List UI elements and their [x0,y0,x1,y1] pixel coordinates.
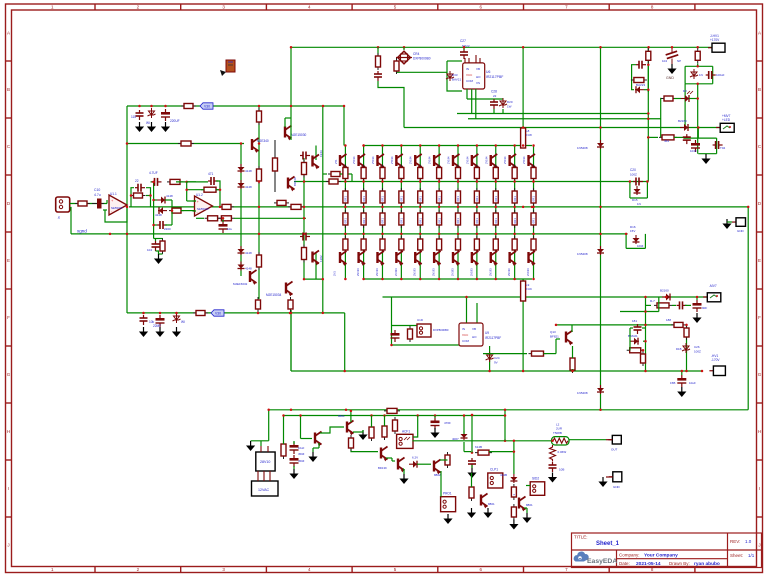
wire [290,310,292,371]
wire [686,325,688,371]
transistor Q8 [315,432,322,447]
junction [290,105,293,108]
junction [522,46,525,49]
svg-text:90F: 90F [702,306,707,310]
svg-text:464: 464 [664,139,669,143]
junction [513,206,516,209]
svg-text:100Z: 100Z [630,173,637,177]
junction [599,46,602,49]
transistor QD1 [340,154,347,169]
wire [447,61,462,91]
capacitor C36 [549,462,557,472]
junction [303,233,306,236]
wire [466,89,468,99]
svg-text:0R1: 0R1 [381,196,385,202]
resistor R46 [257,108,262,125]
transistor QB6 [453,251,460,266]
junction [400,233,403,236]
diode D5 [238,164,245,173]
junction [362,206,365,209]
resistor RM6a [456,188,461,206]
junction [419,278,422,281]
svg-text:ACF1: ACF1 [402,430,410,434]
resistor RT1 [361,165,366,182]
resistor R20 [646,48,651,63]
wire [377,47,379,56]
svg-text:B: B [758,87,761,92]
svg-text:U9: U9 [485,331,489,335]
resistor R41 [178,141,194,146]
svg-text:I: I [759,486,760,491]
svg-text:MJE15034: MJE15034 [266,293,281,297]
junction [495,206,498,209]
capacitor C25 [634,324,642,334]
junction [290,312,293,315]
svg-text:8802: 8802 [434,473,441,477]
svg-text:Sheet:: Sheet: [730,553,743,558]
wire [187,189,204,191]
junction [463,414,466,417]
svg-text:1943: 1943 [319,150,323,157]
wire gate line 2 [468,118,661,120]
wire [660,98,662,138]
svg-text:Sheet_1: Sheet_1 [596,541,620,547]
resistor RM10a [531,188,536,206]
resistor R4 [167,179,183,184]
svg-text:1N5408: 1N5408 [577,146,588,150]
junction [599,126,602,129]
resistor RM8a [493,188,498,206]
polarized capacitor C8 [693,300,702,312]
ground [172,327,181,337]
wire [504,416,506,441]
junction [532,278,535,281]
svg-text:Company:: Company: [619,553,640,558]
transistor Q7 [286,282,293,297]
junction [400,206,403,209]
junction [303,206,306,209]
resistor R11 [257,166,262,184]
junction [665,296,668,299]
wire array bottom rail [364,278,533,280]
junction [696,46,699,49]
wire [391,297,393,345]
junction [504,440,507,443]
junction [697,126,700,129]
svg-text:0R1: 0R1 [437,196,441,202]
junction [171,209,174,212]
wire [216,189,220,191]
junction [322,105,325,108]
resistor RB2 [380,236,385,253]
svg-text:E: E [7,258,10,263]
svg-text:2N193: 2N193 [394,268,398,276]
resistor RD1 [343,165,348,182]
resistor RT5 [437,165,442,182]
resistor R48 [288,204,304,209]
svg-text:0R1: 0R1 [400,196,404,202]
junction [625,233,628,236]
wire [154,238,163,240]
resistor RT10 [531,165,536,182]
ground [548,473,557,483]
wire [187,200,196,202]
transistor QT2 [377,154,384,169]
junction [419,144,422,147]
resistor RB5 [437,236,442,253]
zener diode C24 [486,352,494,362]
resistor RM5a [437,188,442,206]
zener diode D1 [148,108,156,118]
polarized capacitor C5 [691,140,700,152]
junction [522,126,525,129]
diode D13 1N5408 [597,140,604,149]
ground [667,64,676,74]
wire [290,47,292,106]
resistor RD2 [343,188,348,206]
junction [126,142,129,145]
svg-text:0R1: 0R1 [456,218,460,224]
svg-text:F: F [758,315,761,320]
wire [526,485,530,487]
svg-text:0R1: 0R1 [381,218,385,224]
wire array column 9 [514,146,516,280]
resistor R37 [475,450,492,455]
junction [381,278,384,281]
junction [322,312,325,315]
junction [457,233,460,236]
svg-text:IR2117PBF: IR2117PBF [486,75,503,79]
svg-text:A: A [758,31,761,36]
wire array top rail [364,145,533,147]
svg-text:104F: 104F [690,149,697,153]
junction [109,233,112,236]
wire [697,128,699,139]
wire lower box [127,312,345,314]
capacitor C19 [208,177,218,185]
capacitor C3 [683,134,691,144]
resistor R22 [695,48,700,63]
wire [222,218,224,222]
svg-text:D33: D33 [452,73,458,77]
wire [350,411,352,422]
junction [671,46,674,49]
svg-text:MJE15032: MJE15032 [233,282,248,286]
svg-text:12VAC: 12VAC [258,488,270,492]
resistor RB4 [418,236,423,253]
wire bypass box top [127,105,344,107]
junction [149,194,152,197]
resistor R24 [659,135,677,140]
wire [463,416,465,435]
wire [131,188,134,207]
junction [504,409,507,412]
resistor R42 [511,504,516,520]
wire bottom rail 2 [284,415,506,417]
wire [630,327,633,329]
junction [696,83,699,86]
wire [696,297,698,300]
resistor RM3b [399,210,404,228]
svg-text:B2160: B2160 [660,289,669,293]
transistor QB10 [529,251,536,266]
resistor RM1a [361,188,366,206]
resistor RM7b [474,210,479,228]
transistor QT5 [434,154,441,169]
junction [513,278,516,281]
svg-text:C10: C10 [94,188,100,192]
wire [417,463,431,465]
wire [304,278,323,280]
wire right loop vertical [747,207,749,410]
wire [171,200,173,211]
svg-text:10uF: 10uF [689,381,696,385]
junction [747,206,750,209]
wire [340,173,352,175]
wire [378,81,404,128]
junction [381,233,384,236]
junction [531,206,534,209]
wire array column 10 [533,146,535,280]
port MV7 LED [716,123,734,132]
transistor QB3 [396,251,403,266]
svg-text:-MV7: -MV7 [709,284,717,288]
zener diode D33 [446,71,454,81]
wire [689,98,698,100]
wire [524,507,527,509]
ground [701,154,710,164]
resistor R35 [382,423,387,440]
polarized capacitor C9 [219,221,228,233]
svg-text:CR4: CR4 [413,52,420,56]
svg-text:U1.1: U1.1 [110,192,117,196]
junction [646,180,649,183]
zener diode D2 [173,313,181,323]
wire [392,325,418,327]
svg-text:0R1: 0R1 [475,218,479,224]
wire [386,457,392,459]
wire [716,138,718,154]
svg-text:10u: 10u [227,227,232,231]
svg-text:2N1: 2N1 [333,271,337,276]
svg-text:181: 181 [632,319,637,323]
wire [698,153,716,155]
junction [343,370,346,373]
wire [234,217,306,219]
junction [476,278,479,281]
junction [532,233,535,236]
svg-text:GND: GND [666,76,674,80]
resistor RT6 [456,165,461,182]
wire [313,447,319,449]
junction [599,206,602,209]
junction [685,370,688,373]
svg-text:D20: D20 [507,100,513,104]
wire [193,210,197,212]
diode D17 B2160 [662,294,671,301]
resistor R43 [384,408,400,413]
svg-text:U6: U6 [486,70,490,74]
wire [620,311,659,313]
wire [322,106,324,313]
wire [555,339,557,354]
capacitor C23 [374,71,382,81]
svg-text:GND: GND [737,229,745,233]
resistor R16 [256,297,261,312]
junction [476,206,479,209]
transistor QB5 [434,251,441,266]
wire [193,200,197,202]
junction [495,144,498,147]
wire neg gate line [556,324,673,326]
diode D8 [238,262,245,271]
svg-text:DXP8000B0: DXP8000B0 [413,57,431,61]
capacitor C17 [157,221,167,229]
capacitor C27 [460,49,468,59]
junction [303,180,306,183]
wire [159,253,163,255]
svg-text:G: G [758,372,762,377]
junction [185,188,188,191]
wire [284,118,286,127]
wire output bus [129,206,748,208]
inductor L2 [552,437,570,445]
wire [290,310,292,371]
resistor R26 [671,322,686,327]
junction [343,105,346,108]
wire [644,234,646,249]
ground [722,219,731,229]
wire [268,410,270,441]
resistor RB8 [493,236,498,253]
polarized capacitor C30 [677,375,686,387]
wire [156,251,159,254]
svg-text:NE5532P: NE5532P [111,206,123,210]
svg-text:15V: 15V [630,229,635,233]
ground [135,122,144,132]
svg-text:RJ: RJ [683,89,687,93]
junction [532,180,535,183]
wire [522,279,524,371]
junction [152,181,155,184]
zener diode D21 [409,461,418,468]
junction [403,46,406,49]
junction [290,46,293,49]
junction [465,296,468,299]
svg-text:H: H [7,429,10,434]
svg-text:2N193: 2N193 [469,268,473,276]
svg-text:NE5532P: NE5532P [197,207,209,211]
svg-text:0R1: 0R1 [344,218,348,224]
resistor R21 [631,78,647,83]
junction [344,278,347,281]
resistor R25 [654,303,672,308]
port OUT [608,435,621,444]
junction [513,180,516,183]
junction [362,233,365,236]
svg-text:2N193: 2N193 [432,268,436,276]
wire [646,304,652,306]
resistor R49 [302,160,307,178]
capacitor C11 [136,110,144,120]
resistor RM4b [418,210,423,228]
wire [392,344,460,346]
optocoupler PRO1 [441,497,456,512]
test probe icon [220,60,235,76]
junction [644,310,647,313]
junction [377,46,380,49]
junction [400,180,403,183]
junction [362,180,365,183]
resistor R38 [469,484,474,501]
junction [303,278,306,281]
svg-text:WI: WI [146,121,150,125]
svg-text:0R1: 0R1 [400,218,404,224]
resistor RM4a [418,188,423,206]
optocoupler ACF1 [397,434,413,448]
svg-text:BD139: BD139 [293,177,297,186]
wire [371,416,373,428]
junction [175,312,178,315]
junction [532,144,535,147]
port -HV1 [709,366,725,376]
LED D11 [681,95,690,102]
svg-text:2N193: 2N193 [375,268,379,276]
junction [381,180,384,183]
svg-text:2Y194: 2Y194 [409,156,413,164]
junction [495,278,498,281]
wire [674,136,683,138]
transistor QT8 [491,154,498,169]
diode D9 [635,86,644,93]
resistor R9 [205,216,221,221]
polarized capacitor C10 [92,199,104,209]
ground [161,122,170,132]
zener diode D20 [499,98,507,108]
transistor QB9 [510,251,517,266]
svg-text:HO: HO [476,75,481,79]
capacitor C20 [633,178,643,186]
transistor Q10 [381,447,388,462]
svg-text:1N5408: 1N5408 [577,391,588,395]
transistor QT3 [396,154,403,169]
wire [293,441,295,444]
wire [464,451,471,453]
wire [646,182,648,199]
resistor R27 [684,325,689,340]
polarized capacitor C4 [666,51,679,58]
wire [320,427,344,433]
junction [282,414,285,417]
transistor QB8 [491,251,498,266]
svg-text:1N5408: 1N5408 [577,252,588,256]
svg-text:1N: 1N [699,73,703,77]
junction [513,233,516,236]
polarized capacitor C32 [290,442,299,454]
svg-text:C26: C26 [694,345,700,349]
transistor Q6 [313,251,320,266]
resistor R10 [218,216,234,221]
svg-text:VCC: VCC [462,333,469,337]
resistor RM3a [399,188,404,206]
svg-text:4148: 4148 [245,169,252,173]
svg-text:0R1: 0R1 [513,196,517,202]
svg-text:0R1: 0R1 [494,218,498,224]
resistor RM9b [512,210,517,228]
fuse FU9 [521,281,526,301]
junction [696,296,699,299]
wire [315,252,317,279]
